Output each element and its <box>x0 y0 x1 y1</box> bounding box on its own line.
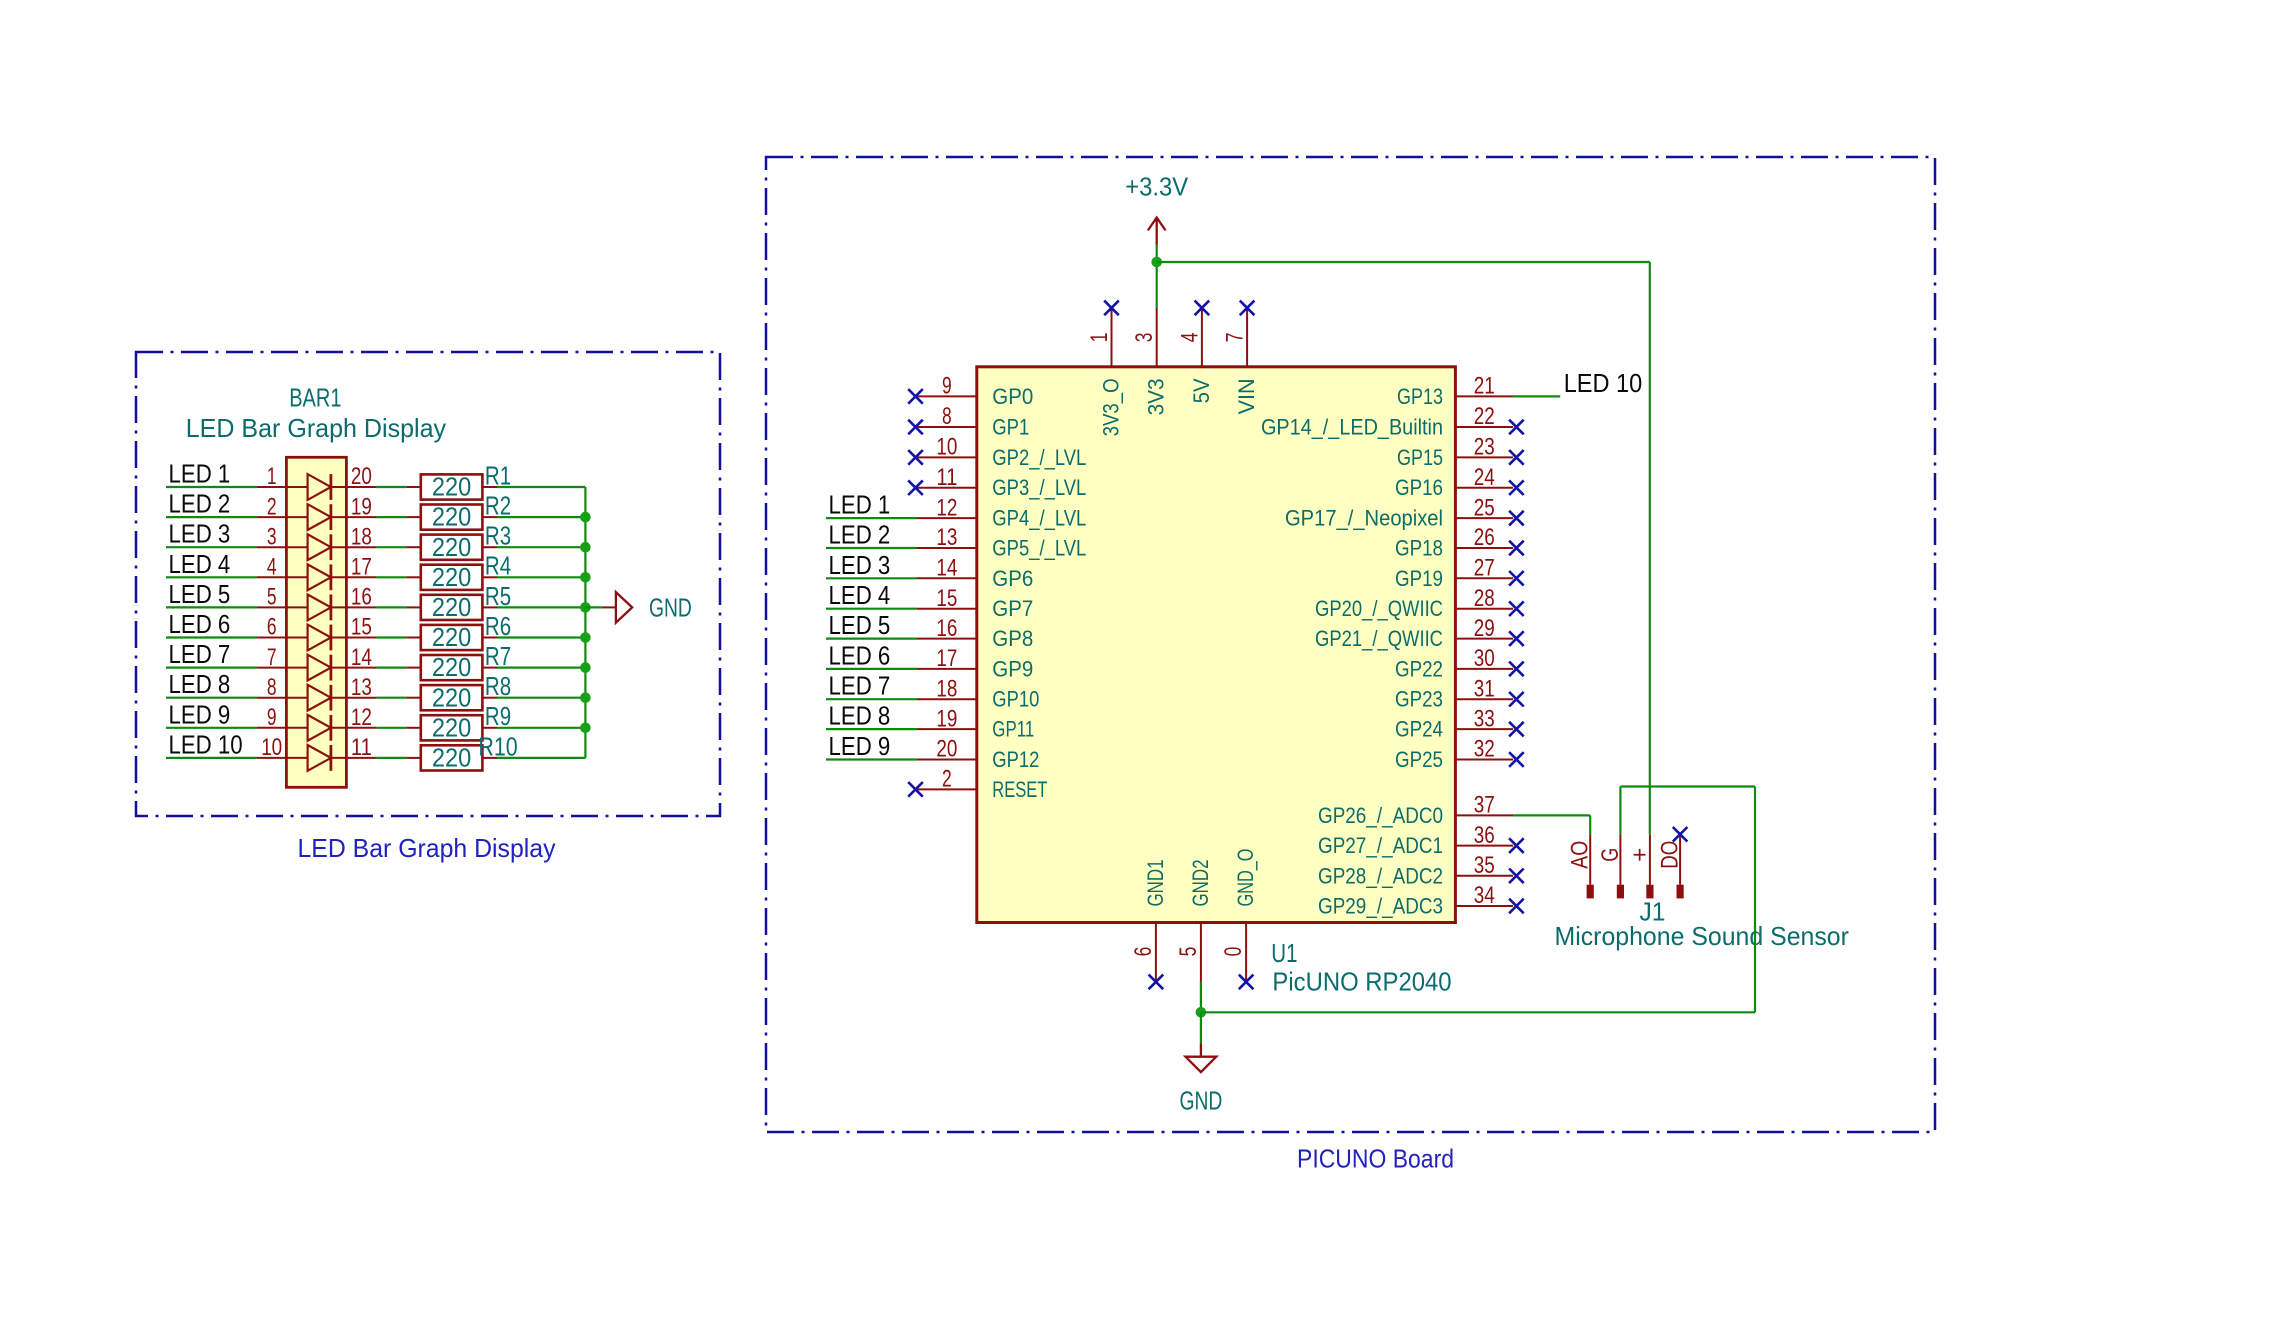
svg-text:GP24: GP24 <box>1395 717 1443 742</box>
BAR1 pin 1 <box>257 486 286 488</box>
U1 pin 18 (GP10) <box>917 698 977 700</box>
no-connect <box>1240 301 1255 316</box>
wire LED 7 to U1 <box>826 698 917 700</box>
no-connect <box>1509 450 1524 465</box>
junction at R8 row <box>580 692 591 703</box>
resistor R7 <box>406 667 421 669</box>
junction at R2 row <box>580 512 591 523</box>
wire BAR1 pin 12 to R9 <box>376 727 406 729</box>
svg-text:220: 220 <box>432 592 471 622</box>
LED diode 8 inside BAR1 <box>286 697 346 699</box>
wire LED 2 to U1 <box>826 547 917 549</box>
BAR1 pin 9 <box>257 727 286 729</box>
U1 pin 5 (GND2) bottom <box>1200 923 1202 982</box>
wire R8 to GND bus <box>497 697 585 699</box>
wire BAR1 pin 11 to R10 <box>376 757 406 759</box>
U1 pin 13 (GP5_/_LVL) <box>917 547 977 549</box>
svg-text:30: 30 <box>1474 645 1495 672</box>
U1 pin 0 (GND_O) bottom <box>1245 923 1247 982</box>
BAR1 pin 6 <box>257 637 286 639</box>
svg-text:12: 12 <box>351 704 372 731</box>
svg-text:GP9: GP9 <box>992 656 1033 681</box>
GND power symbol (left block) <box>602 606 616 608</box>
svg-text:6: 6 <box>1130 947 1157 957</box>
wire 3V3 pin to +3.3V symbol <box>1156 245 1158 308</box>
U1 pin 35 (GP28_/_ADC2) <box>1455 875 1513 877</box>
no-connect <box>908 450 923 465</box>
svg-text:29: 29 <box>1474 615 1495 642</box>
svg-text:GP13: GP13 <box>1397 384 1443 409</box>
U1 pin 31 (GP23) <box>1455 698 1513 700</box>
svg-text:GP14_/_LED_Builtin: GP14_/_LED_Builtin <box>1261 415 1443 440</box>
LED diode 6 inside BAR1 <box>286 637 346 639</box>
U1 PicUNO RP2040 body <box>977 367 1456 923</box>
no-connect <box>1509 838 1524 853</box>
svg-text:G: G <box>1597 848 1624 862</box>
svg-text:33: 33 <box>1474 705 1495 732</box>
svg-text:220: 220 <box>432 743 471 773</box>
LED diode 4 inside BAR1 <box>286 576 346 578</box>
wire BAR1 pin 19 to R2 <box>376 516 406 518</box>
wire BAR1 pin 13 to R8 <box>376 697 406 699</box>
power symbol +3.3V <box>1156 219 1158 245</box>
svg-text:R5: R5 <box>485 581 511 611</box>
U1 pin 30 (GP22) <box>1455 668 1513 670</box>
wire R7 to GND bus <box>497 666 585 668</box>
no-connect <box>908 480 923 495</box>
svg-text:R8: R8 <box>485 671 511 701</box>
svg-text:LED Bar Graph Display: LED Bar Graph Display <box>298 833 556 863</box>
U1 pin 11 (GP3_/_LVL) <box>917 487 977 489</box>
svg-text:220: 220 <box>432 562 471 592</box>
svg-text:2: 2 <box>942 766 952 793</box>
U1 pin 27 (GP19) <box>1455 577 1513 579</box>
svg-text:RESET: RESET <box>992 777 1047 802</box>
svg-text:220: 220 <box>432 532 471 562</box>
GND net wires <box>1200 982 1202 1012</box>
wire BAR1 pin 15 to R6 <box>376 636 406 638</box>
U1 pin 10 (GP2_/_LVL) <box>917 456 977 458</box>
resistor R3 <box>406 546 421 548</box>
wire GP13 to LED 10 label <box>1513 395 1560 397</box>
svg-text:R3: R3 <box>485 521 511 551</box>
svg-text:37: 37 <box>1474 792 1495 819</box>
no-connect <box>1509 722 1524 737</box>
svg-text:14: 14 <box>351 644 372 671</box>
wire R9 to GND bus <box>497 727 585 729</box>
svg-text:36: 36 <box>1474 822 1495 849</box>
svg-text:LED 3: LED 3 <box>829 550 891 580</box>
svg-text:GP25: GP25 <box>1395 747 1443 772</box>
svg-text:23: 23 <box>1474 434 1495 461</box>
svg-text:LED 4: LED 4 <box>829 580 891 610</box>
svg-text:GP3_/_LVL: GP3_/_LVL <box>992 475 1086 500</box>
no-connect <box>1509 511 1524 526</box>
U1 pin 23 (GP15) <box>1455 456 1513 458</box>
svg-text:LED 2: LED 2 <box>829 520 891 550</box>
U1 pin 36 (GP27_/_ADC1) <box>1455 845 1513 847</box>
svg-text:GP20_/_QWIIC: GP20_/_QWIIC <box>1315 596 1443 621</box>
BAR1 pin 12 <box>346 727 376 729</box>
LED diode 10 inside BAR1 <box>286 757 346 759</box>
wire BAR1 pin 16 to R5 <box>376 606 406 608</box>
svg-text:9: 9 <box>942 373 952 400</box>
svg-text:LED 10: LED 10 <box>169 729 243 759</box>
svg-text:7: 7 <box>267 644 277 671</box>
junction at R6 row <box>580 632 591 643</box>
sheet frame: LED Bar Graph Display <box>136 352 720 816</box>
svg-text:GP29_/_ADC3: GP29_/_ADC3 <box>1318 894 1443 919</box>
svg-text:GP7: GP7 <box>992 596 1033 621</box>
U1 pin 25 (GP17_/_Neopixel) <box>1455 517 1513 519</box>
BAR1 pin 20 <box>346 486 376 488</box>
U1 pin 14 (GP6) <box>917 577 977 579</box>
svg-text:8: 8 <box>942 403 952 430</box>
svg-text:LED 6: LED 6 <box>169 609 231 639</box>
U1 pin 1 (3V3_O) top <box>1111 308 1113 367</box>
svg-text:15: 15 <box>351 614 372 641</box>
svg-text:GND_O: GND_O <box>1233 849 1258 907</box>
wire LED 1 to U1 <box>826 517 917 519</box>
svg-text:DO: DO <box>1657 841 1684 869</box>
svg-text:GP26_/_ADC0: GP26_/_ADC0 <box>1318 803 1443 828</box>
wire LED 7 to BAR1 pin 7 <box>166 666 257 668</box>
svg-text:18: 18 <box>936 675 957 702</box>
resistor R9 <box>406 727 421 729</box>
junction at R9 row <box>580 723 591 734</box>
wire LED 3 to BAR1 pin 3 <box>166 546 257 548</box>
svg-text:220: 220 <box>432 682 471 712</box>
svg-text:LED 6: LED 6 <box>829 640 891 670</box>
svg-text:16: 16 <box>351 584 372 611</box>
U1 pin 34 (GP29_/_ADC3) <box>1455 905 1513 907</box>
svg-text:+: + <box>1626 848 1653 862</box>
svg-text:LED 7: LED 7 <box>829 671 891 701</box>
wire LED 8 to U1 <box>826 728 917 730</box>
no-connect <box>908 420 923 435</box>
wire R10 to GND bus <box>497 757 585 759</box>
no-connect <box>1509 662 1524 677</box>
junction at R3 row <box>580 542 591 553</box>
svg-text:LED 8: LED 8 <box>169 669 231 699</box>
svg-text:28: 28 <box>1474 585 1495 612</box>
U1 pin 32 (GP25) <box>1455 759 1513 761</box>
svg-text:GP18: GP18 <box>1395 536 1443 561</box>
BAR1 pin 10 <box>257 757 286 759</box>
wire +3.3V to J1 + pin <box>1157 261 1650 263</box>
svg-text:GND: GND <box>649 593 692 623</box>
wire BAR1 pin 20 to R1 <box>376 486 406 488</box>
BAR1 pin 2 <box>257 516 286 518</box>
svg-text:GP23: GP23 <box>1395 687 1443 712</box>
svg-text:0: 0 <box>1220 947 1247 957</box>
wire BAR1 pin 17 to R4 <box>376 576 406 578</box>
svg-text:31: 31 <box>1474 675 1495 702</box>
svg-text:8: 8 <box>267 674 277 701</box>
BAR1 pin 3 <box>257 546 286 548</box>
svg-text:BAR1: BAR1 <box>289 382 341 412</box>
svg-text:LED 2: LED 2 <box>169 489 231 519</box>
no-connect <box>1104 301 1119 316</box>
no-connect <box>1195 301 1210 316</box>
svg-text:LED 9: LED 9 <box>829 731 891 761</box>
U1 pin 6 (GND1) bottom <box>1155 923 1157 982</box>
no-connect <box>908 389 923 404</box>
svg-text:35: 35 <box>1474 852 1495 879</box>
LED diode 5 inside BAR1 <box>286 606 346 608</box>
U1 pin 4 (5V) top <box>1201 308 1203 367</box>
wire R6 to GND bus <box>497 636 585 638</box>
wire R2 to GND bus <box>497 516 585 518</box>
wire LED 9 to U1 <box>826 758 917 760</box>
svg-text:34: 34 <box>1474 882 1495 909</box>
U1 pin 16 (GP8) <box>917 638 977 640</box>
LED diode 1 inside BAR1 <box>286 486 346 488</box>
svg-text:LED Bar Graph Display: LED Bar Graph Display <box>186 413 446 443</box>
svg-text:1: 1 <box>267 463 277 490</box>
LED diode 7 inside BAR1 <box>286 667 346 669</box>
svg-text:LED 1: LED 1 <box>829 490 891 520</box>
svg-text:24: 24 <box>1474 464 1495 491</box>
svg-text:VIN: VIN <box>1234 378 1259 414</box>
BAR1 pin 18 <box>346 546 376 548</box>
svg-text:R10: R10 <box>478 731 517 761</box>
wire LED 6 to U1 <box>826 668 917 670</box>
U1 pin 15 (GP7) <box>917 608 977 610</box>
U1 pin 24 (GP16) <box>1455 487 1513 489</box>
J1 pin DO <box>1679 834 1681 884</box>
svg-text:220: 220 <box>432 622 471 652</box>
no-connect <box>1509 692 1524 707</box>
U1 pin 2 (RESET) <box>917 788 977 790</box>
no-connect <box>1509 601 1524 616</box>
svg-text:GP4_/_LVL: GP4_/_LVL <box>992 506 1086 531</box>
svg-text:2: 2 <box>267 493 277 520</box>
svg-text:GP11: GP11 <box>992 717 1034 742</box>
svg-text:26: 26 <box>1474 524 1495 551</box>
resistor R2 <box>406 516 421 518</box>
svg-text:17: 17 <box>936 645 957 672</box>
svg-text:14: 14 <box>936 555 957 582</box>
svg-text:GP15: GP15 <box>1397 445 1443 470</box>
svg-text:12: 12 <box>936 494 957 521</box>
svg-text:LED 10: LED 10 <box>1564 368 1643 398</box>
svg-text:220: 220 <box>432 712 471 742</box>
wire R5 to GND bus <box>497 606 585 608</box>
svg-text:GND: GND <box>1180 1086 1223 1116</box>
svg-text:GP17_/_Neopixel: GP17_/_Neopixel <box>1285 506 1443 531</box>
svg-text:25: 25 <box>1474 494 1495 521</box>
U1 pin 3 (3V3) top <box>1156 308 1158 367</box>
wire R1 to GND bus <box>497 486 585 488</box>
svg-text:4: 4 <box>1176 333 1203 343</box>
BAR1 pin 13 <box>346 697 376 699</box>
BAR1 pin 8 <box>257 697 286 699</box>
wire LED 3 to U1 <box>826 577 917 579</box>
LED diode 3 inside BAR1 <box>286 546 346 548</box>
svg-text:20: 20 <box>936 736 957 763</box>
svg-text:21: 21 <box>1474 373 1495 400</box>
svg-text:GP12: GP12 <box>992 747 1039 772</box>
svg-text:18: 18 <box>351 523 372 550</box>
svg-text:220: 220 <box>432 502 471 532</box>
svg-text:11: 11 <box>936 464 957 491</box>
svg-text:GP27_/_ADC1: GP27_/_ADC1 <box>1318 833 1443 858</box>
U1 pin 9 (GP0) <box>917 395 977 397</box>
svg-text:LED 1: LED 1 <box>169 459 231 489</box>
wire LED 4 to BAR1 pin 4 <box>166 576 257 578</box>
svg-text:GP2_/_LVL: GP2_/_LVL <box>992 445 1086 470</box>
BAR1 pin 17 <box>346 576 376 578</box>
U1 pin 26 (GP18) <box>1455 547 1513 549</box>
svg-text:3: 3 <box>1131 333 1158 343</box>
wire LED 4 to U1 <box>826 608 917 610</box>
BAR1 pin 15 <box>346 637 376 639</box>
svg-text:32: 32 <box>1474 736 1495 763</box>
no-connect <box>1239 975 1254 990</box>
no-connect <box>1509 752 1524 767</box>
wire BAR1 pin 18 to R3 <box>376 546 406 548</box>
svg-text:19: 19 <box>351 493 372 520</box>
svg-text:10: 10 <box>261 734 282 761</box>
svg-text:GP0: GP0 <box>992 384 1033 409</box>
LED bar graph BAR1 body <box>286 457 346 787</box>
wire LED 2 to BAR1 pin 2 <box>166 516 257 518</box>
BAR1 pin 4 <box>257 576 286 578</box>
no-connect <box>1509 420 1524 435</box>
svg-text:GP6: GP6 <box>992 566 1033 591</box>
svg-text:20: 20 <box>351 463 372 490</box>
no-connect <box>1509 480 1524 495</box>
wire LED 9 to BAR1 pin 9 <box>166 727 257 729</box>
svg-text:U1: U1 <box>1271 938 1297 968</box>
svg-text:1: 1 <box>1086 333 1113 343</box>
svg-text:LED 3: LED 3 <box>169 519 231 549</box>
svg-text:27: 27 <box>1474 555 1495 582</box>
wire LED 5 to U1 <box>826 637 917 639</box>
resistor R10 <box>406 757 421 759</box>
wire LED 6 to BAR1 pin 6 <box>166 636 257 638</box>
svg-text:11: 11 <box>351 734 372 761</box>
LED diode 2 inside BAR1 <box>286 516 346 518</box>
wire LED 5 to BAR1 pin 5 <box>166 606 257 608</box>
GND power symbol (bottom) <box>1200 1044 1202 1057</box>
wire GP26 to J1 AO <box>1513 814 1590 816</box>
junction at R7 row <box>580 662 591 673</box>
no-connect <box>1509 631 1524 646</box>
wire GND2 to GND symbol <box>1200 1012 1202 1043</box>
svg-text:19: 19 <box>936 705 957 732</box>
svg-text:GP21_/_QWIIC: GP21_/_QWIIC <box>1315 626 1443 651</box>
U1 pin 8 (GP1) <box>917 426 977 428</box>
svg-text:GP8: GP8 <box>992 626 1033 651</box>
svg-text:AO: AO <box>1567 841 1594 869</box>
svg-text:PICUNO Board: PICUNO Board <box>1297 1144 1454 1174</box>
U1 pin 7 (VIN) top <box>1246 308 1248 367</box>
no-connect <box>908 782 923 797</box>
svg-text:GP5_/_LVL: GP5_/_LVL <box>992 536 1086 561</box>
svg-text:GP22: GP22 <box>1395 656 1443 681</box>
U1 pin 21 (GP13) <box>1455 395 1513 397</box>
U1 pin 29 (GP21_/_QWIIC) <box>1455 638 1513 640</box>
resistor R1 <box>406 486 421 488</box>
J1 pin AO <box>1589 834 1591 884</box>
no-connect <box>1509 869 1524 884</box>
svg-text:15: 15 <box>936 585 957 612</box>
BAR1 pin 5 <box>257 606 286 608</box>
no-connect <box>1149 975 1164 990</box>
svg-text:3: 3 <box>267 523 277 550</box>
svg-text:PicUNO RP2040: PicUNO RP2040 <box>1272 967 1451 997</box>
svg-text:GP16: GP16 <box>1395 475 1443 500</box>
U1 pin 22 (GP14_/_LED_Builtin) <box>1455 426 1513 428</box>
svg-text:220: 220 <box>432 652 471 682</box>
wire bus to GND symbol <box>585 606 602 608</box>
U1 pin 37 (GP26_/_ADC0) <box>1455 814 1513 816</box>
GND bus vertical wire <box>584 487 586 758</box>
BAR1 pin 19 <box>346 516 376 518</box>
U1 pin 17 (GP9) <box>917 668 977 670</box>
junction at R5 row <box>580 602 591 613</box>
svg-text:GP10: GP10 <box>992 687 1039 712</box>
svg-text:LED 8: LED 8 <box>829 701 891 731</box>
no-connect <box>1509 899 1524 914</box>
no-connect <box>1509 541 1524 556</box>
svg-text:9: 9 <box>267 704 277 731</box>
wire R3 to GND bus <box>497 546 585 548</box>
svg-text:5V: 5V <box>1189 378 1214 403</box>
no-connect <box>1509 571 1524 586</box>
BAR1 pin 14 <box>346 667 376 669</box>
svg-text:LED 9: LED 9 <box>169 699 231 729</box>
svg-text:5: 5 <box>1175 947 1202 957</box>
svg-text:16: 16 <box>936 615 957 642</box>
svg-text:220: 220 <box>432 472 471 502</box>
U1 pin 12 (GP4_/_LVL) <box>917 517 977 519</box>
svg-text:6: 6 <box>267 614 277 641</box>
resistor R8 <box>406 697 421 699</box>
svg-text:LED 4: LED 4 <box>169 549 231 579</box>
J1 pin G <box>1619 834 1621 884</box>
svg-text:22: 22 <box>1474 403 1495 430</box>
svg-text:13: 13 <box>351 674 372 701</box>
resistor R6 <box>406 637 421 639</box>
svg-text:Microphone Sound Sensor: Microphone Sound Sensor <box>1555 921 1850 951</box>
svg-text:3V3_O: 3V3_O <box>1099 378 1124 436</box>
svg-text:10: 10 <box>936 434 957 461</box>
BAR1 pin 16 <box>346 606 376 608</box>
wire R4 to GND bus <box>497 576 585 578</box>
svg-text:LED 5: LED 5 <box>829 610 891 640</box>
wire LED 10 to BAR1 pin 10 <box>166 757 257 759</box>
U1 pin 33 (GP24) <box>1455 728 1513 730</box>
no-connect J1 DO <box>1673 827 1688 842</box>
svg-text:GP1: GP1 <box>992 415 1029 440</box>
J1 pin + <box>1649 834 1651 884</box>
svg-text:GND1: GND1 <box>1143 860 1168 907</box>
svg-text:17: 17 <box>351 554 372 581</box>
LED diode 9 inside BAR1 <box>286 727 346 729</box>
U1 pin 19 (GP11) <box>917 728 977 730</box>
svg-text:GP19: GP19 <box>1395 566 1443 591</box>
wire LED 8 to BAR1 pin 8 <box>166 697 257 699</box>
junction +3.3V <box>1151 257 1162 268</box>
svg-text:7: 7 <box>1222 333 1249 343</box>
sheet frame: PICUNO Board <box>766 157 1935 1132</box>
junction at R4 row <box>580 572 591 583</box>
resistor R4 <box>406 576 421 578</box>
svg-text:4: 4 <box>267 554 277 581</box>
